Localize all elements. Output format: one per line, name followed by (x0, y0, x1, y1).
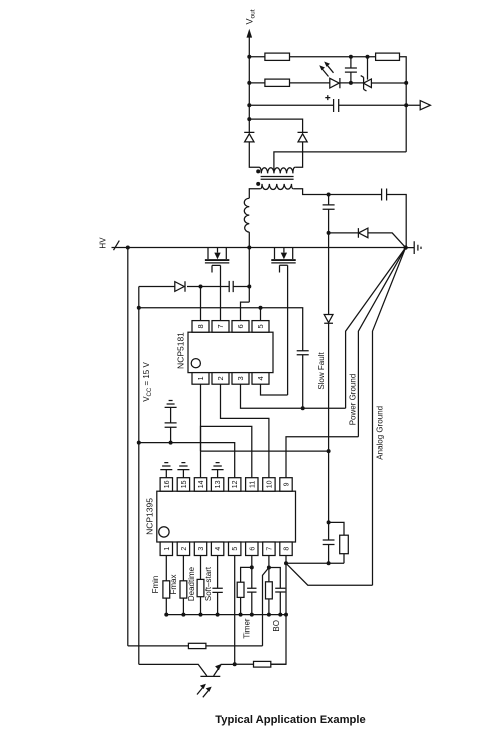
wire drive line to slow fault node (201, 450, 329, 452)
diode bootstrap (175, 281, 185, 291)
svg-text:7: 7 (266, 547, 273, 551)
wire clamp diode line (329, 233, 406, 248)
ground symbol above pin16 (160, 463, 172, 478)
transistor optocoupler phototransistor (139, 664, 221, 676)
wire NCP5181 pin3 power ground line (241, 384, 346, 408)
svg-text:8: 8 (196, 324, 205, 328)
NCP1395 pin box 13 (211, 478, 223, 492)
svg-text:Deadtime: Deadtime (187, 566, 196, 601)
rectifier diode D1 (244, 132, 254, 142)
transistor Q2 lower MOSFET (271, 248, 295, 263)
rectifier diode D2 (298, 132, 308, 142)
capacitor slow fault filter (323, 540, 335, 545)
svg-text:HV: HV (99, 237, 108, 249)
junction dot line 3 (404, 103, 408, 107)
junction dot drive line at slow fault column (327, 449, 331, 453)
svg-text:Slow Fault: Slow Fault (317, 352, 326, 390)
NCP5181 pin box 4 (252, 373, 269, 385)
svg-text:4: 4 (215, 547, 222, 551)
diode clamp (cathode left) (358, 228, 368, 238)
wire Vout rail vertical (248, 57, 250, 133)
junction dot slow fault ground (327, 561, 331, 565)
wire primary left lead to resonant inductor (249, 189, 260, 198)
NCP1395 pin1 marker circle (159, 527, 169, 537)
resistor Fmax (182, 556, 184, 615)
NCP5181 pin box 5 (252, 321, 269, 333)
wire primary right lead (293, 189, 381, 195)
transformer secondary winding (259, 167, 295, 173)
svg-text:1: 1 (164, 547, 171, 551)
svg-text:6: 6 (236, 324, 245, 328)
wire driver Vcc line (139, 308, 303, 351)
junction dots on Vout rail (247, 55, 251, 59)
junction dot bootstrap at driver pin8 (199, 285, 203, 289)
wire NCP5181 pin1 lead to drive line (200, 384, 202, 451)
zener diode TL431-style reference (361, 57, 372, 91)
capacitor timer (247, 567, 256, 614)
wire NCP1395 pin7 BO node (268, 556, 270, 568)
NCP1395 pin box 12 (229, 478, 241, 492)
resistor LED series R (line2) (265, 79, 290, 86)
svg-text:Power Ground: Power Ground (349, 374, 358, 426)
NCP1395 pin box 14 (194, 478, 206, 492)
wire slow fault column (328, 233, 330, 451)
junction dots line 1 (349, 55, 353, 59)
wire inductor to half-bridge node (248, 232, 250, 247)
svg-text:16: 16 (164, 480, 171, 488)
svg-text:6: 6 (249, 547, 256, 551)
capacitor output bulk electrolytic (334, 99, 339, 112)
svg-text:10: 10 (266, 480, 273, 488)
svg-text:1: 1 (196, 376, 205, 380)
svg-text:Vout: Vout (245, 9, 257, 24)
NCP5181 pin box 8 (192, 321, 209, 333)
wire fan power-ground-1 to NCP5181 pin3 (346, 248, 406, 409)
wire bootstrap line (139, 286, 250, 288)
svg-text:12: 12 (232, 480, 239, 488)
resistor FB pulldown (235, 663, 286, 665)
NCP1395 pin box 7 (263, 542, 275, 556)
NCP1395 pin box 2 (177, 542, 189, 556)
NCP5181 pin box 2 (212, 373, 229, 385)
wire NCP5181 pin4 jog to Q2 gate (261, 384, 288, 395)
svg-text:3: 3 (198, 547, 205, 551)
NCP1395 pin box 4 (211, 542, 223, 556)
junction dot Vcc rail to driver supply line (137, 306, 141, 310)
diode slow fault (pointing down) (324, 315, 333, 324)
wire HV bus line (112, 247, 406, 249)
wire NCP5181 pin8 lead (200, 287, 202, 321)
wire NCP1395 pin11 jog to drive line (201, 426, 252, 477)
LED optocoupler emitter diode (330, 78, 340, 88)
transistor Q1 upper MOSFET (205, 248, 229, 263)
optocoupler light arrows (197, 686, 210, 697)
wire NCP5181 pin6 lead to HB column (241, 302, 250, 321)
wire NCP1395 pin9 jog to power ground 2 (286, 437, 358, 478)
wire center tap to right vertical (274, 152, 406, 171)
wire NCP5181 pin5 lead (260, 308, 262, 321)
wire Vout rail arrow (248, 35, 250, 57)
svg-text:5: 5 (232, 547, 239, 551)
NCP5181 pin box 1 (192, 373, 209, 385)
svg-text:Fmax: Fmax (169, 575, 178, 595)
HV line break slash (114, 241, 120, 251)
svg-text:3: 3 (236, 376, 245, 380)
wire HV sense rail left (127, 248, 129, 646)
NCP5181 pin box 7 (212, 321, 229, 333)
svg-text:Soft–start: Soft–start (204, 566, 213, 601)
wire NCP5181 pin2 jog to NCP1395 pin10 (221, 384, 269, 478)
inductor resonant Ls (244, 198, 249, 232)
wire output line 1 (249, 57, 406, 83)
svg-text:NCP1395: NCP1395 (144, 498, 154, 535)
capacitor bootstrap (229, 281, 233, 292)
ground symbol above pin13 (212, 463, 224, 478)
junction dot driver pin5 (259, 306, 263, 310)
svg-text:4: 4 (256, 376, 265, 380)
NCP1395 pin box 6 (246, 542, 258, 556)
wire slow fault column lower (328, 451, 330, 563)
junction dot Vcc cap (169, 441, 173, 445)
wire analog ground diagonal jog (286, 563, 373, 585)
svg-text:5: 5 (256, 324, 265, 328)
junction dot Vcc rail (137, 441, 141, 445)
ground symbol above pin15 (177, 463, 189, 478)
svg-text:NCP5181: NCP5181 (176, 332, 186, 369)
wire Vcc rail vertical (138, 287, 140, 665)
capacitor resonant series (382, 189, 387, 201)
phototransistor emitter arrow (215, 664, 222, 670)
svg-text:14: 14 (198, 480, 205, 488)
ground symbol (rotated) (406, 241, 421, 254)
Q1 gate hook (212, 265, 221, 272)
NCP1395 pin box 1 (160, 542, 172, 556)
wire output line 2 (249, 82, 406, 84)
resistor bias R (line1 right) (376, 53, 400, 60)
resistor Deadtime (200, 556, 202, 615)
resistor BO lower (268, 568, 270, 615)
NCP1395 pin box 8 (280, 542, 292, 556)
resistor Fmin (165, 556, 167, 615)
NCP5181 pin box 6 (232, 321, 249, 333)
resistor slow fault filter (329, 522, 344, 563)
resistor upper feedback R (line1 left) (265, 53, 290, 60)
svg-text:VCC = 15 V: VCC = 15 V (142, 362, 153, 402)
svg-text:8: 8 (284, 547, 291, 551)
wire NCP1395 pin8 lead down to FB resistor (271, 556, 286, 665)
NCP1395 pin box 3 (194, 542, 206, 556)
svg-text:11: 11 (249, 481, 256, 488)
NCP1395 pin box 15 (177, 478, 189, 492)
NCP1395 pin box 5 (229, 542, 241, 556)
resistor timer (241, 567, 252, 614)
transformer core lines (261, 177, 294, 180)
junction dot line 2 (349, 81, 353, 85)
svg-text:2: 2 (216, 376, 225, 380)
junction dot primary return (327, 193, 331, 197)
junction dot pin8 at bus (284, 613, 288, 617)
ground symbol above Vcc cap (165, 401, 177, 408)
svg-text:Analog Ground: Analog Ground (376, 406, 385, 460)
wire output line 3 (249, 104, 406, 106)
capacitor driver Vcc decoupling (297, 351, 309, 355)
svg-text:BO: BO (272, 620, 281, 632)
wire divider column upper (328, 195, 330, 233)
junction dot diode line (327, 231, 331, 235)
svg-text:13: 13 (215, 480, 222, 488)
wire D1 leads (249, 142, 259, 167)
capacitor across line1-line2 (345, 57, 357, 83)
svg-text:Timer: Timer (242, 618, 251, 638)
svg-text:2: 2 (181, 547, 188, 551)
junction dot slow fault RC top (327, 520, 331, 524)
svg-text:9: 9 (284, 482, 291, 486)
phase dot secondary (256, 169, 260, 173)
wire slow fault ground line (286, 562, 344, 564)
Q2 gate hook (280, 265, 288, 272)
junction dot FB node (233, 662, 237, 666)
svg-text:7: 7 (216, 324, 225, 328)
NCP5181 pin box 3 (232, 373, 249, 385)
junction dot HV left rail (126, 246, 130, 250)
transformer primary winding (260, 184, 293, 190)
wire NCP1395 pin5 FB column (234, 556, 236, 665)
capacitor BO filter (269, 568, 286, 615)
capacitor Soft-start (212, 556, 222, 615)
wire fan power-ground-2 to NCP1395 pin9 (358, 248, 405, 437)
svg-text:Fmin: Fmin (151, 576, 160, 594)
wire NCP1395 pin6 timer node (251, 556, 253, 568)
junction dot power ground at Vcc cap (301, 406, 305, 410)
svg-text:15: 15 (181, 480, 188, 488)
LED light arrows (322, 64, 334, 76)
svg-text:Typical Application Example: Typical Application Example (215, 714, 365, 726)
NCP1395 pin box 11 (246, 478, 258, 492)
NCP1395 pin box 10 (263, 478, 275, 492)
wire fan analog-ground to NCP1395 pin8 (373, 248, 406, 586)
output terminal open arrow (406, 101, 430, 110)
wire Q1 gate lead to driver pin7 (220, 265, 222, 320)
resistor BO upper sense (128, 645, 263, 647)
junction dot half-bridge node (247, 246, 251, 250)
wire BO divider diagonal and sense column (263, 568, 269, 646)
junction dot bootstrap to HB node (247, 285, 251, 289)
plus sign polarity (325, 95, 330, 100)
phase dot primary (256, 182, 260, 186)
wire jog to rectifier diode 2 (249, 119, 302, 132)
wire resonant cap to right vertical lower (387, 195, 407, 248)
NCP1395 pin box 9 (280, 478, 292, 492)
op-amp U2 NCP5181 body (188, 332, 273, 372)
wire half-bridge column (248, 248, 250, 303)
wire Q2 gate lead down (287, 265, 289, 395)
junction dot NCP1395 pin8 node (284, 561, 288, 565)
wire Vcc line to pin12 (139, 443, 235, 478)
capacitor Vcc decoupling (165, 408, 177, 443)
wire analog ground bus (166, 614, 286, 616)
NCP5181 pin1 marker circle (191, 359, 200, 368)
ground node main (403, 245, 407, 249)
op-amp U1 NCP1395 body (157, 491, 296, 542)
capacitor divider upper (323, 205, 335, 209)
wire NCP1395 pin14 lead (200, 451, 202, 478)
NCP1395 pin box 16 (160, 478, 172, 492)
wire D2 leads (295, 142, 302, 167)
wire right vertical upper (405, 83, 407, 152)
wire cap to power ground line (302, 355, 304, 408)
